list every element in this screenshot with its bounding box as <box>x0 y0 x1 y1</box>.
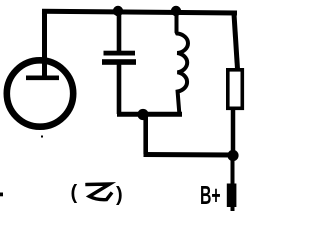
svg-text:B+: B+ <box>200 182 221 210</box>
svg-text:): ) <box>116 184 123 206</box>
svg-text:(: ( <box>71 182 78 204</box>
